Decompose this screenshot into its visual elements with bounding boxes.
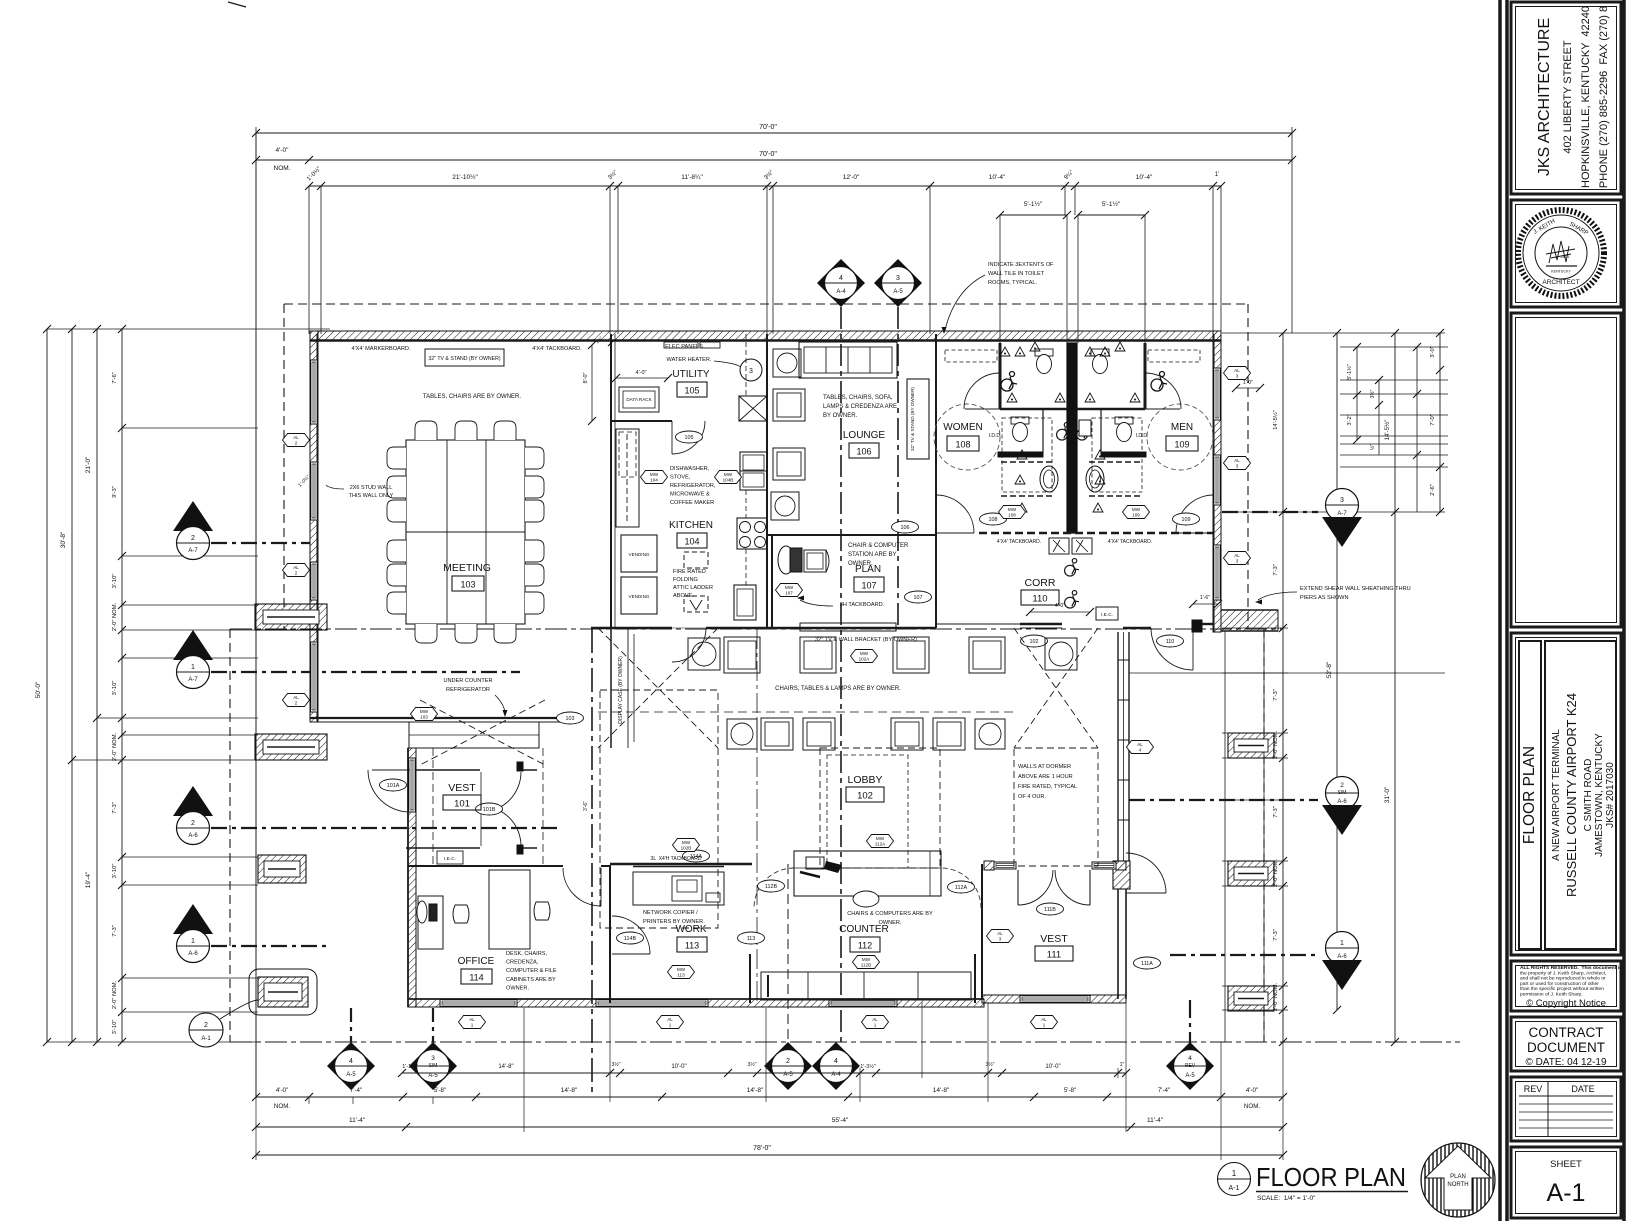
svg-text:A-7: A-7: [188, 677, 198, 683]
svg-text:70'-0": 70'-0": [759, 124, 777, 131]
svg-text:11'-4": 11'-4": [349, 1117, 366, 1124]
svg-text:4: 4: [834, 1058, 838, 1065]
svg-text:LOUNGE: LOUNGE: [843, 430, 886, 441]
svg-text:A-6: A-6: [188, 951, 198, 957]
svg-text:1'-6": 1'-6": [1200, 595, 1210, 601]
toilet doors: [965, 408, 1000, 410]
svg-text:STOVE,: STOVE,: [670, 475, 691, 481]
svg-text:A-6: A-6: [1337, 954, 1347, 960]
bottom dim line 2: [256, 1126, 1283, 1128]
toilet fixtures men: [1091, 349, 1109, 374]
section marker 3/A-7 right: [1326, 489, 1359, 522]
svg-text:4: 4: [1139, 748, 1142, 753]
plan room: [778, 546, 794, 574]
svg-text:5'-8": 5'-8": [434, 1087, 446, 1094]
detail callout 2/A-1: [189, 1013, 223, 1047]
svg-text:7'-4": 7'-4": [1158, 1087, 1170, 1094]
svg-text:1: 1: [874, 1023, 877, 1028]
svg-text:A-1: A-1: [1229, 1185, 1240, 1192]
svg-text:3L X4'H TACKBOARD: 3L X4'H TACKBOARD: [651, 856, 702, 862]
svg-text:NOM.: NOM.: [274, 165, 291, 172]
top grid bubble 3/A-5: [874, 259, 922, 307]
toilet sub dimensions: [1000, 214, 1067, 216]
bottom dim line 1: [256, 1096, 1283, 1098]
svg-text:50'-0": 50'-0": [35, 681, 42, 698]
svg-text:AL: AL: [1234, 458, 1240, 463]
svg-text:2: 2: [786, 1058, 790, 1065]
dormer dashed rect + note: [1014, 748, 1098, 866]
svg-text:107: 107: [914, 595, 923, 601]
svg-text:SCALE: 1/4" = 1'-0": SCALE: 1/4" = 1'-0": [1257, 1195, 1316, 1202]
svg-text:113: 113: [685, 941, 699, 951]
svg-text:108: 108: [989, 517, 998, 523]
section marker 1/A-7: [173, 630, 213, 660]
svg-text:PIERS AS SHOWN: PIERS AS SHOWN: [1300, 595, 1349, 601]
svg-text:I.D.D.: I.D.D.: [1136, 433, 1149, 439]
exterior wall: west (meeting): [310, 331, 318, 722]
svg-text:EXTEND SHEAR WALL SHEATHING TH: EXTEND SHEAR WALL SHEATHING THRU: [1300, 586, 1411, 592]
svg-text:2: 2: [295, 701, 298, 706]
west wall windows: [311, 360, 318, 424]
vest 101 walls: [416, 769, 480, 771]
roof overhang dashed outline: [284, 303, 1248, 305]
svg-text:1': 1': [1215, 172, 1219, 178]
svg-text:2'-0" NOM.: 2'-0" NOM.: [112, 602, 118, 631]
title block: sheet title / project box: [1511, 633, 1621, 955]
svg-text:DATE: DATE: [1571, 1084, 1594, 1094]
east wing wall at corridor: [1221, 610, 1278, 631]
svg-text:MICROWAVE &: MICROWAVE &: [670, 492, 710, 498]
svg-text:COFFEE MAKER: COFFEE MAKER: [670, 500, 714, 506]
AL/2 hexagons left wall: [283, 434, 310, 447]
attic ladder dashed: [684, 552, 708, 568]
canopy east edge lines: [1224, 631, 1226, 1042]
svg-text:101: 101: [454, 799, 470, 810]
svg-text:A-5: A-5: [428, 1073, 438, 1079]
svg-text:REV: REV: [1185, 1063, 1196, 1069]
svg-text:102: 102: [1030, 639, 1039, 645]
toilet dashed tile rects: [945, 350, 997, 362]
svg-text:3: 3: [999, 937, 1002, 942]
svg-text:AL: AL: [293, 565, 299, 570]
svg-text:7'-3": 7'-3": [1273, 806, 1279, 818]
utility south wall + door: [611, 420, 672, 422]
svg-text:114: 114: [469, 973, 483, 983]
right dim verticals: [1282, 333, 1284, 1042]
svg-text:102B: 102B: [681, 846, 692, 851]
turning circles: [934, 404, 1000, 470]
svg-text:DOCUMENT: DOCUMENT: [1527, 1040, 1605, 1055]
svg-text:113: 113: [747, 936, 756, 942]
svg-text:AL: AL: [293, 435, 299, 440]
bottom extension verticals: [308, 1097, 310, 1104]
exterior wall: east (toilets): [1213, 331, 1221, 632]
svg-text:2801: 2801: [1561, 254, 1571, 259]
svg-text:KENTUCKY: KENTUCKY: [1551, 270, 1571, 274]
svg-text:14'-8": 14'-8": [747, 1087, 764, 1094]
lobby dashed rects: [600, 690, 718, 928]
svg-text:SIM: SIM: [429, 1063, 438, 1069]
svg-text:OFFICE: OFFICE: [458, 956, 495, 967]
lobby east storefront wall: [1117, 632, 1119, 861]
svg-text:102A: 102A: [859, 657, 871, 662]
toilet sinks corridor: [1049, 538, 1069, 554]
svg-text:4'-0": 4'-0": [1055, 603, 1065, 609]
svg-text:JAMESTOWN, KENTUCKY: JAMESTOWN, KENTUCKY: [1594, 733, 1605, 857]
svg-text:1'-1½": 1'-1½": [402, 1063, 418, 1070]
svg-text:2: 2: [191, 535, 195, 542]
svg-text:COUNTER: COUNTER: [839, 924, 888, 935]
svg-text:HOPKINSVILLE, KENTUCKY 42240: HOPKINSVILLE, KENTUCKY 42240: [1580, 6, 1592, 188]
svg-text:A-1: A-1: [1547, 1179, 1586, 1207]
title block: empty box: [1511, 313, 1621, 627]
vest 101 exterior door: [372, 769, 410, 771]
svg-text:5'-1½": 5'-1½": [1024, 200, 1043, 208]
8ft dim: [591, 345, 593, 421]
svg-text:WOMEN: WOMEN: [943, 422, 982, 433]
work/counter wall: [609, 956, 611, 1003]
right dim extension lines: [1222, 332, 1445, 334]
svg-text:3'-10": 3'-10": [112, 864, 118, 879]
west piers: [255, 604, 327, 630]
svg-text:RUSSELL COUNTY AIRPORT K24: RUSSELL COUNTY AIRPORT K24: [1564, 693, 1579, 897]
title block: architect seal: [1511, 200, 1621, 307]
svg-text:7'-3": 7'-3": [1273, 929, 1279, 941]
svg-text:3½": 3½": [611, 1061, 620, 1068]
svg-text:A-5: A-5: [1185, 1073, 1195, 1079]
svg-text:FLOOR PLAN: FLOOR PLAN: [1256, 1162, 1406, 1192]
counter room: [794, 851, 941, 896]
svg-text:UNDER COUNTER: UNDER COUNTER: [443, 678, 492, 684]
svg-text:4: 4: [349, 1058, 353, 1065]
top dimension line second: [256, 159, 1292, 161]
svg-text:105: 105: [685, 435, 694, 441]
svg-text:DISHWASHER,: DISHWASHER,: [670, 466, 710, 472]
svg-text:STATION ARE BY: STATION ARE BY: [848, 552, 896, 558]
svg-text:104B: 104B: [723, 478, 734, 483]
svg-text:REFRIGERATOR,: REFRIGERATOR,: [670, 483, 716, 489]
svg-text:THIS WALL ONLY: THIS WALL ONLY: [349, 493, 394, 499]
svg-text:10'-0": 10'-0": [1045, 1064, 1060, 1070]
svg-text:402 LIBERTY STREET: 402 LIBERTY STREET: [1562, 40, 1574, 154]
vertical dash-dot center: [591, 629, 593, 1097]
svg-text:MW: MW: [650, 472, 659, 477]
counter south cabinets: [761, 972, 971, 1000]
svg-text:ABOVE ARE 1 HOUR: ABOVE ARE 1 HOUR: [1018, 774, 1073, 780]
title block: firm name box: [1511, 2, 1621, 194]
svg-text:32" TV & WALL BRACKET (BY OWNE: 32" TV & WALL BRACKET (BY OWNER): [815, 637, 917, 643]
svg-text:ARCHITECT: ARCHITECT: [1542, 279, 1579, 286]
svg-text:part or used for construction: part or used for construction of other: [1520, 981, 1599, 987]
svg-text:3½": 3½": [1369, 389, 1376, 398]
east canopy piers: [1228, 733, 1274, 758]
south-west pier: [258, 855, 306, 883]
svg-text:7'-4": 7'-4": [350, 1087, 362, 1094]
svg-text:78'-0": 78'-0": [753, 1145, 771, 1152]
top grid bubble 4/A-4: [817, 259, 865, 307]
svg-text:MW: MW: [682, 840, 691, 845]
lobby dashed ceiling diagonals: [598, 628, 718, 748]
svg-text:AL: AL: [293, 695, 299, 700]
vest111 east wall: [1117, 889, 1119, 999]
svg-text:ABOVE.: ABOVE.: [673, 593, 694, 599]
svg-text:COMPUTER & FILE: COMPUTER & FILE: [506, 968, 557, 974]
svg-text:70'-0": 70'-0": [759, 151, 777, 158]
svg-text:MW: MW: [420, 709, 429, 714]
toilet chase dashed walls: [979, 532, 1214, 535]
svg-text:7'-3": 7'-3": [1273, 564, 1279, 576]
svg-text:VENDING: VENDING: [629, 594, 650, 599]
svg-text:MW: MW: [860, 651, 869, 656]
svg-text:ATTIC LADDER: ATTIC LADDER: [673, 585, 713, 591]
svg-text:NOM.: NOM.: [1244, 1103, 1260, 1110]
svg-text:106: 106: [856, 447, 871, 457]
bottom dim line 3: [256, 1154, 1283, 1156]
svg-text:PHONE (270) 885-2296 FAX (270: PHONE (270) 885-2296 FAX (270) 8: [1598, 6, 1610, 188]
svg-text:5'-8": 5'-8": [1064, 1087, 1076, 1094]
svg-text:2'-0" NOM.: 2'-0" NOM.: [112, 732, 118, 761]
svg-text:7'-6": 7'-6": [112, 372, 118, 384]
AL/1 hexagons bottom: [459, 1016, 486, 1029]
svg-text:2'-6": 2'-6": [1430, 484, 1436, 496]
svg-text:A-5: A-5: [346, 1072, 356, 1078]
svg-text:and shall not be reproduced in: and shall not be reproduced in whole or: [1520, 976, 1606, 982]
svg-text:TABLES, CHAIRS ARE BY OWNER.: TABLES, CHAIRS ARE BY OWNER.: [423, 394, 521, 400]
svg-text:NOM.: NOM.: [274, 1103, 290, 1110]
svg-text:14'-8": 14'-8": [498, 1064, 513, 1070]
svg-text:103: 103: [566, 716, 575, 722]
svg-text:PLAN: PLAN: [855, 564, 881, 575]
lounge sofa: [799, 342, 897, 378]
svg-text:I.D.D.: I.D.D.: [989, 433, 1002, 439]
svg-text:2: 2: [295, 571, 298, 576]
svg-text:110: 110: [1032, 594, 1047, 605]
svg-text:OF 4 OUR.: OF 4 OUR.: [1018, 794, 1046, 800]
svg-text:7'-3": 7'-3": [112, 802, 118, 814]
svg-text:31'-0": 31'-0": [1384, 786, 1391, 803]
svg-text:AL: AL: [469, 1017, 475, 1022]
svg-text:101B: 101B: [483, 807, 496, 813]
svg-text:112A: 112A: [955, 885, 968, 891]
section marker 2 SIM/A-6 right: [1326, 777, 1359, 810]
lounge/plan wall: [767, 534, 936, 536]
svg-text:5'-1½": 5'-1½": [1346, 364, 1353, 380]
plan north symbol: [1421, 1143, 1495, 1217]
svg-text:11'-8¼": 11'-8¼": [681, 174, 703, 181]
svg-text:14'-8": 14'-8": [933, 1087, 950, 1094]
lobby furniture row1: [688, 638, 720, 670]
svg-text:I.E.C.: I.E.C.: [444, 856, 456, 862]
svg-text:AL: AL: [1137, 742, 1143, 747]
svg-text:105: 105: [684, 386, 699, 396]
svg-text:114B: 114B: [624, 936, 637, 942]
svg-text:1: 1: [471, 1023, 474, 1028]
svg-text:4'X4' TACKBOARD.: 4'X4' TACKBOARD.: [997, 539, 1041, 545]
svg-text:LOBBY: LOBBY: [847, 774, 882, 786]
svg-text:109: 109: [1182, 517, 1191, 523]
svg-text:1: 1: [191, 664, 195, 671]
svg-text:112B: 112B: [861, 963, 871, 968]
svg-text:REFRIGERATOR: REFRIGERATOR: [446, 687, 490, 693]
svg-text:A NEW AIRPORT TERMINAL: A NEW AIRPORT TERMINAL: [1551, 729, 1562, 861]
right short extension lines: [1340, 346, 1448, 348]
svg-text:CONTRACT: CONTRACT: [1529, 1025, 1604, 1040]
svg-text:A-5: A-5: [893, 289, 903, 295]
svg-text:permission of J. Keith Sharp.: permission of J. Keith Sharp.: [1520, 992, 1583, 998]
svg-text:I.E.C.: I.E.C.: [1101, 612, 1113, 618]
svg-text:3: 3: [1236, 374, 1239, 379]
svg-text:101A: 101A: [387, 783, 400, 789]
svg-text:14'-5½": 14'-5½": [1384, 420, 1391, 441]
svg-text:21'-0": 21'-0": [85, 456, 92, 473]
title block: contract document: [1511, 1017, 1621, 1071]
svg-text:MW: MW: [1008, 507, 1017, 512]
svg-text:32" TV & STAND (BY OWNER): 32" TV & STAND (BY OWNER): [428, 356, 500, 362]
title block: sheet number: [1511, 1147, 1621, 1218]
svg-text:C SMITH ROAD: C SMITH ROAD: [1583, 759, 1594, 832]
svg-text:3: 3: [1236, 464, 1239, 469]
left dim verticals: [46, 329, 48, 1042]
svg-text:FIRE RATED: FIRE RATED: [673, 569, 706, 575]
svg-text:WALL TILE IN TOILET: WALL TILE IN TOILET: [988, 271, 1045, 277]
svg-text:DISPLAY CASE (BY OWNER): DISPLAY CASE (BY OWNER): [618, 656, 624, 724]
svg-text:than the specific project with: than the specific project without writte…: [1520, 986, 1604, 992]
vest 101 double door arcs: [481, 772, 521, 812]
vest101 counter: [409, 722, 539, 748]
svg-text:2: 2: [191, 820, 195, 827]
svg-text:AL: AL: [1234, 368, 1240, 373]
svg-text:ROOMS, TYPICAL.: ROOMS, TYPICAL.: [988, 280, 1037, 286]
horizontal grid dash-dot upper: [230, 628, 1283, 630]
svg-text:TABLES, CHAIRS, SOFA,: TABLES, CHAIRS, SOFA,: [823, 395, 893, 401]
svg-text:4'-0": 4'-0": [276, 1087, 288, 1094]
svg-text:2'-0" NOM.: 2'-0" NOM.: [112, 980, 118, 1009]
svg-text:VENDING: VENDING: [629, 552, 650, 557]
meeting table: [406, 440, 525, 624]
svg-text:A-6: A-6: [1337, 799, 1347, 805]
svg-text:A-1: A-1: [201, 1036, 211, 1042]
counter flap dashed arcs: [754, 868, 794, 908]
svg-text:A-4: A-4: [836, 289, 846, 295]
svg-text:MW: MW: [677, 967, 686, 972]
svg-text:3'-10": 3'-10": [112, 574, 118, 589]
svg-text:CHAIRS, TABLES & LAMPS ARE BY: CHAIRS, TABLES & LAMPS ARE BY OWNER.: [775, 686, 901, 692]
toilet urinal: [1079, 420, 1091, 436]
bottom sub dim line: [402, 1072, 1126, 1074]
vest 111 walls/doors: [984, 861, 994, 870]
svg-text:AL: AL: [997, 931, 1003, 936]
svg-text:FOLDING: FOLDING: [673, 577, 698, 583]
vest 101 dashed mullion lines: [432, 748, 434, 866]
drawing title circle 1/A-1: [1218, 1163, 1251, 1196]
svg-text:JKS# 2017030: JKS# 2017030: [1605, 762, 1616, 828]
svg-text:107: 107: [861, 581, 876, 591]
left dim extension lines: [47, 328, 330, 330]
exterior wall: north: [310, 331, 1221, 340]
svg-text:AL: AL: [872, 1017, 878, 1022]
kitchen refrigerator dashed: [616, 429, 639, 527]
svg-text:MW: MW: [785, 585, 794, 590]
svg-text:3'-0": 3'-0": [1430, 346, 1436, 358]
svg-text:19'-4": 19'-4": [85, 871, 92, 888]
svg-text:103: 103: [460, 580, 475, 590]
title block: revision table: [1511, 1077, 1621, 1141]
toilet room walls: [935, 343, 937, 535]
lounge tv stand: [907, 379, 929, 459]
svg-text:55'-4": 55'-4": [832, 1117, 849, 1124]
svg-text:KITCHEN: KITCHEN: [669, 520, 713, 531]
svg-text:SHEET: SHEET: [1550, 1159, 1582, 1170]
svg-text:2: 2: [204, 1022, 208, 1029]
meeting south wall: [310, 717, 560, 719]
svg-text:NORTH: NORTH: [1447, 1182, 1468, 1188]
counter room east wall: [974, 954, 976, 1003]
svg-text:CHAIRS & COMPUTERS ARE BY: CHAIRS & COMPUTERS ARE BY: [847, 911, 933, 917]
svg-text:107: 107: [785, 591, 793, 596]
svg-text:3: 3: [896, 275, 900, 282]
svg-text:3'-10": 3'-10": [112, 1020, 118, 1035]
svg-text:4'-0": 4'-0": [276, 147, 290, 154]
svg-text:7'-0": 7'-0": [1430, 414, 1436, 426]
svg-text:1: 1: [669, 1023, 672, 1028]
svg-text:14'-5½": 14'-5½": [1272, 410, 1279, 430]
svg-text:3H TACKBOARD.: 3H TACKBOARD.: [840, 602, 885, 608]
wall meeting/kitchen: [610, 334, 612, 628]
svg-text:REV: REV: [1524, 1084, 1543, 1094]
svg-text:11'-4": 11'-4": [1147, 1117, 1164, 1124]
svg-text:4'-0": 4'-0": [636, 370, 647, 376]
work room walls: [609, 866, 611, 1003]
svg-text:WALLS AT DORMER: WALLS AT DORMER: [1018, 764, 1071, 770]
svg-text:30'-8": 30'-8": [60, 531, 67, 548]
toilet warning triangles: [1000, 347, 1010, 356]
svg-text:104: 104: [684, 537, 699, 547]
vertical dash-dot lobby: [756, 629, 758, 1003]
svg-text:WATER HEATER.: WATER HEATER.: [667, 357, 712, 363]
svg-text:102: 102: [857, 791, 873, 802]
grid extension verticals from top dims: [308, 186, 310, 334]
svg-text:© DATE: 04 12-19: © DATE: 04 12-19: [1525, 1057, 1607, 1068]
svg-text:3½": 3½": [747, 1061, 756, 1068]
svg-text:CORR: CORR: [1025, 577, 1056, 589]
svg-text:1: 1: [1232, 1169, 1237, 1178]
svg-text:3: 3: [431, 1055, 435, 1062]
svg-text:112B: 112B: [765, 884, 778, 890]
heavy match lines vertical: [840, 307, 842, 1043]
sheet corner mark: [228, 2, 246, 7]
meeting chairs: [415, 421, 437, 440]
svg-text:108: 108: [1008, 513, 1016, 518]
svg-text:103: 103: [420, 715, 428, 720]
svg-text:10'-4": 10'-4": [989, 174, 1006, 181]
svg-text:111: 111: [1047, 950, 1061, 961]
svg-text:3: 3: [749, 368, 753, 375]
svg-text:UTILITY: UTILITY: [672, 369, 710, 380]
svg-text:DESK, CHAIRS,: DESK, CHAIRS,: [506, 951, 547, 957]
horizontal grid dash-dot lower: [230, 1041, 1460, 1043]
svg-text:A-7: A-7: [188, 548, 198, 554]
svg-text:AL: AL: [1041, 1017, 1047, 1022]
svg-text:JKS ARCHITECTURE: JKS ARCHITECTURE: [1536, 18, 1553, 176]
kitchen appliance column: [739, 396, 767, 421]
svg-text:1: 1: [191, 938, 195, 945]
svg-text:AL: AL: [667, 1017, 673, 1022]
svg-text:LAMPS & CREDENZA ARE: LAMPS & CREDENZA ARE: [823, 404, 897, 410]
title block: copyright notice: [1511, 961, 1621, 1011]
pier with A-1 callout: [258, 977, 308, 1007]
svg-text:AL: AL: [1234, 553, 1240, 558]
svg-text:2X6 STUD WALL: 2X6 STUD WALL: [350, 485, 393, 491]
